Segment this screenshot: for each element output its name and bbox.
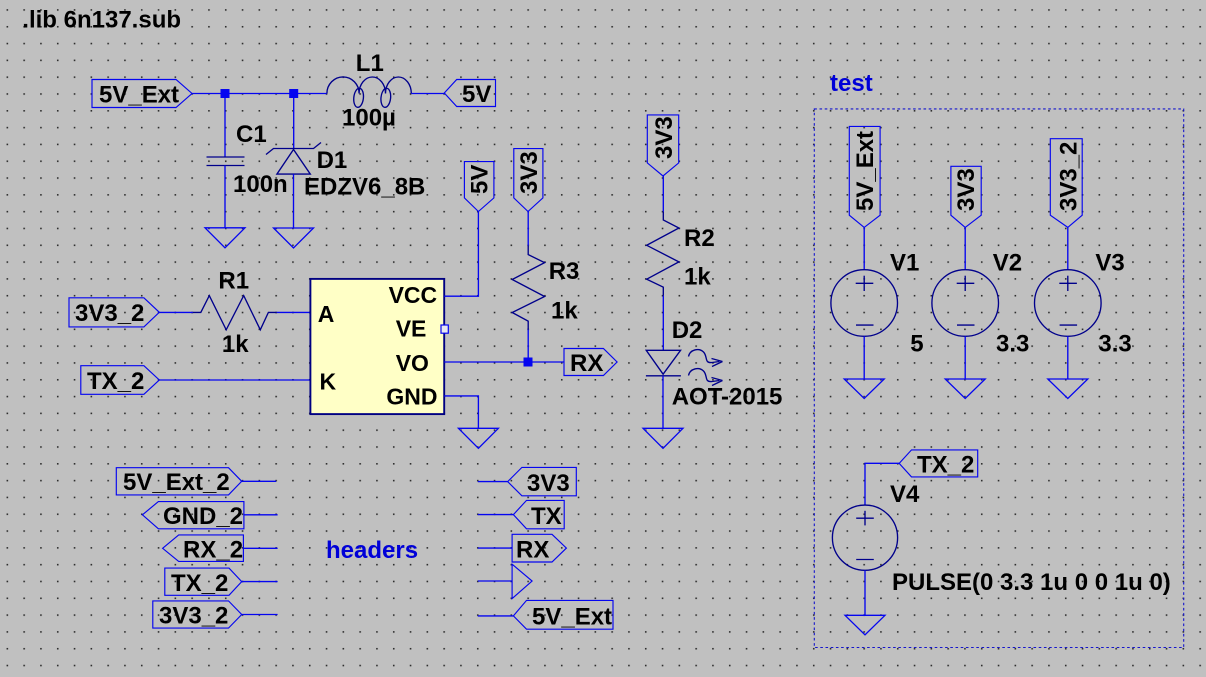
net flag TX (header right): [513, 500, 564, 530]
wire stub 3V3 (header right): [478, 481, 508, 483]
svg-text:C1: C1: [236, 121, 267, 148]
wire stub TX_2: [242, 581, 278, 583]
svg-text:5: 5: [910, 331, 923, 358]
net flag 3V3 (vertical, above R2): [647, 115, 678, 176]
voltage source V3: [1035, 270, 1102, 337]
zener diode D1: [266, 143, 321, 175]
svg-text:3V3: 3V3: [953, 168, 980, 211]
svg-text:TX_2: TX_2: [917, 452, 974, 479]
svg-text:V2: V2: [993, 249, 1022, 276]
wire stub RX_2: [243, 547, 277, 549]
svg-text:5V: 5V: [462, 81, 491, 108]
wire V4 to TX_2 flag: [865, 463, 899, 505]
wire 3V3 to R3: [527, 212, 529, 246]
svg-text:1k: 1k: [551, 298, 578, 325]
svg-text:1k: 1k: [684, 264, 711, 291]
net flag 3V3_2 (header left): [153, 601, 242, 630]
unconnected VE pin marker: [441, 325, 448, 333]
junction at D1 tap: [289, 89, 298, 98]
svg-text:D2: D2: [672, 317, 703, 344]
wire flag to V3: [1067, 227, 1069, 270]
wire R1 to pin A: [277, 311, 311, 313]
svg-text:AOT-2015: AOT-2015: [672, 384, 783, 411]
svg-text:3V3: 3V3: [527, 470, 570, 497]
svg-text:TX_2: TX_2: [87, 368, 144, 395]
net flag 3V3 (vertical, above R3): [514, 149, 543, 212]
svg-text:100µ: 100µ: [342, 105, 396, 132]
wire V3 to ground: [1067, 336, 1069, 379]
svg-text:headers: headers: [326, 537, 418, 564]
net flag TX_2 (at V4): [899, 450, 978, 479]
svg-text:5V_Ext: 5V_Ext: [99, 82, 179, 109]
svg-text:.lib 6n137.sub: .lib 6n137.sub: [22, 6, 181, 33]
svg-text:1k: 1k: [222, 331, 249, 358]
LED D2: [646, 350, 723, 386]
wire rail to D1: [293, 94, 295, 149]
svg-text:GND: GND: [386, 384, 437, 410]
wire GND pin to ground: [444, 396, 478, 428]
svg-text:3V3_2: 3V3_2: [1056, 142, 1083, 211]
svg-text:RX: RX: [570, 350, 603, 377]
svg-text:VO: VO: [396, 350, 429, 376]
svg-text:R3: R3: [549, 258, 580, 285]
wire D2 to ground: [662, 376, 664, 429]
svg-text:PULSE(0 3.3 1u 0 0 1u 0): PULSE(0 3.3 1u 0 0 1u 0): [892, 569, 1171, 596]
svg-text:100n: 100n: [233, 171, 288, 198]
wire stub TX (header right): [478, 514, 514, 516]
wire VCC pin to 5V flag: [444, 212, 478, 297]
wire R3 to VO node: [527, 330, 529, 363]
net flag RX: [564, 349, 617, 378]
svg-text:D1: D1: [317, 147, 348, 174]
junction at VO/R3 node: [524, 358, 533, 367]
ground under C1: [205, 228, 245, 248]
net flag 5V (vertical, at VCC): [464, 162, 494, 212]
wire stub GND_2: [244, 514, 278, 516]
wire 3V3_2 to R1: [159, 311, 193, 313]
svg-text:K: K: [320, 369, 337, 395]
svg-text:3V3: 3V3: [516, 151, 543, 194]
svg-text:TX: TX: [531, 503, 562, 530]
svg-text:3.3: 3.3: [1098, 331, 1131, 358]
resistor R3: [512, 246, 544, 330]
net flag 5V_Ext (top left input): [92, 80, 192, 109]
svg-text:EDZV6_8B: EDZV6_8B: [304, 174, 425, 201]
wire stub unnamed port: [478, 580, 512, 582]
wire stub 5V_Ext_2: [242, 480, 277, 482]
net flag 5V_Ext_2 (header left): [116, 468, 241, 496]
svg-text:3V3: 3V3: [651, 116, 678, 159]
svg-text:V1: V1: [890, 249, 919, 276]
net flag 3V3 (header right): [508, 467, 577, 497]
svg-text:test: test: [830, 70, 873, 97]
ground under V1: [844, 379, 884, 399]
svg-text:V3: V3: [1095, 249, 1124, 276]
net flag 5V (after L1): [444, 80, 495, 109]
svg-text:R1: R1: [218, 267, 249, 294]
resistor R2: [647, 212, 679, 296]
ground under D1: [274, 228, 314, 248]
unnamed port flag (header right): [512, 564, 532, 598]
voltage source V1: [831, 270, 898, 337]
svg-text:3V3_2: 3V3_2: [159, 603, 228, 630]
wire 3V3 to R2: [662, 176, 664, 212]
wire top rail 5V_Ext to L1: [192, 93, 327, 95]
svg-text:A: A: [318, 301, 335, 327]
wire R2 to D2: [662, 296, 664, 351]
svg-text:TX_2: TX_2: [171, 570, 228, 597]
svg-text:5V_Ext: 5V_Ext: [852, 131, 879, 211]
wire D1 to ground: [293, 174, 295, 228]
svg-text:V4: V4: [890, 481, 920, 508]
svg-text:5V: 5V: [467, 165, 494, 194]
wire V2 to ground: [964, 336, 966, 379]
svg-text:VE: VE: [396, 316, 427, 342]
wire stub 5V_Ext (header right): [478, 615, 514, 617]
wire stub RX (header right): [478, 547, 512, 549]
ground under D2: [643, 428, 683, 448]
optocoupler U1 6N137 body: [310, 279, 444, 414]
wire V1 to ground: [863, 336, 865, 379]
test group dashed boundary: [814, 109, 1183, 648]
wire L1 to 5V flag: [411, 93, 444, 95]
capacitor C1: [207, 157, 245, 166]
svg-text:R2: R2: [684, 225, 715, 252]
net flag TX_2 (header left): [165, 568, 242, 597]
junction at C1 tap: [221, 89, 230, 98]
ground under V2: [945, 379, 985, 399]
wire V4 to ground: [864, 570, 866, 615]
net flag 3V3_2 (above V3): [1050, 139, 1082, 228]
svg-text:3.3: 3.3: [996, 331, 1029, 358]
ground under V3: [1048, 379, 1088, 399]
wire stub 3V3_2: [242, 614, 278, 616]
svg-text:RX: RX: [516, 537, 549, 564]
wire rail to C1: [224, 94, 226, 158]
ground under V4: [845, 615, 885, 635]
wire VO pin to RX flag: [444, 361, 564, 363]
wire flag to V2: [964, 227, 966, 270]
wire C1 to ground: [224, 166, 226, 228]
inductor L1: [327, 77, 411, 108]
svg-text:3V3_2: 3V3_2: [75, 300, 144, 327]
net flag TX_2 (to K pin): [81, 366, 160, 395]
svg-text:5V_Ext_2: 5V_Ext_2: [123, 469, 230, 496]
net flag RX (header right): [512, 534, 566, 563]
net flag GND_2 (header left): [142, 502, 244, 530]
svg-text:RX_2: RX_2: [183, 537, 243, 564]
net flag 5V_Ext (above V1): [849, 126, 880, 227]
svg-text:L1: L1: [356, 50, 384, 77]
net flag 3V3_2 (to R1): [69, 298, 159, 327]
voltage source V4: [832, 505, 897, 570]
svg-text:VCC: VCC: [389, 282, 438, 308]
net flag RX_2 (header left): [163, 535, 244, 564]
resistor R1: [193, 296, 277, 330]
voltage source V2: [932, 270, 999, 337]
ground under U1: [458, 428, 498, 448]
svg-text:5V_Ext: 5V_Ext: [532, 604, 612, 631]
net flag 5V_Ext (header right): [513, 600, 613, 630]
wire TX_2 to pin K: [159, 379, 310, 381]
net flag 3V3 (above V2): [951, 166, 981, 227]
svg-text:GND_2: GND_2: [163, 503, 243, 530]
wire flag to V1: [863, 227, 865, 270]
